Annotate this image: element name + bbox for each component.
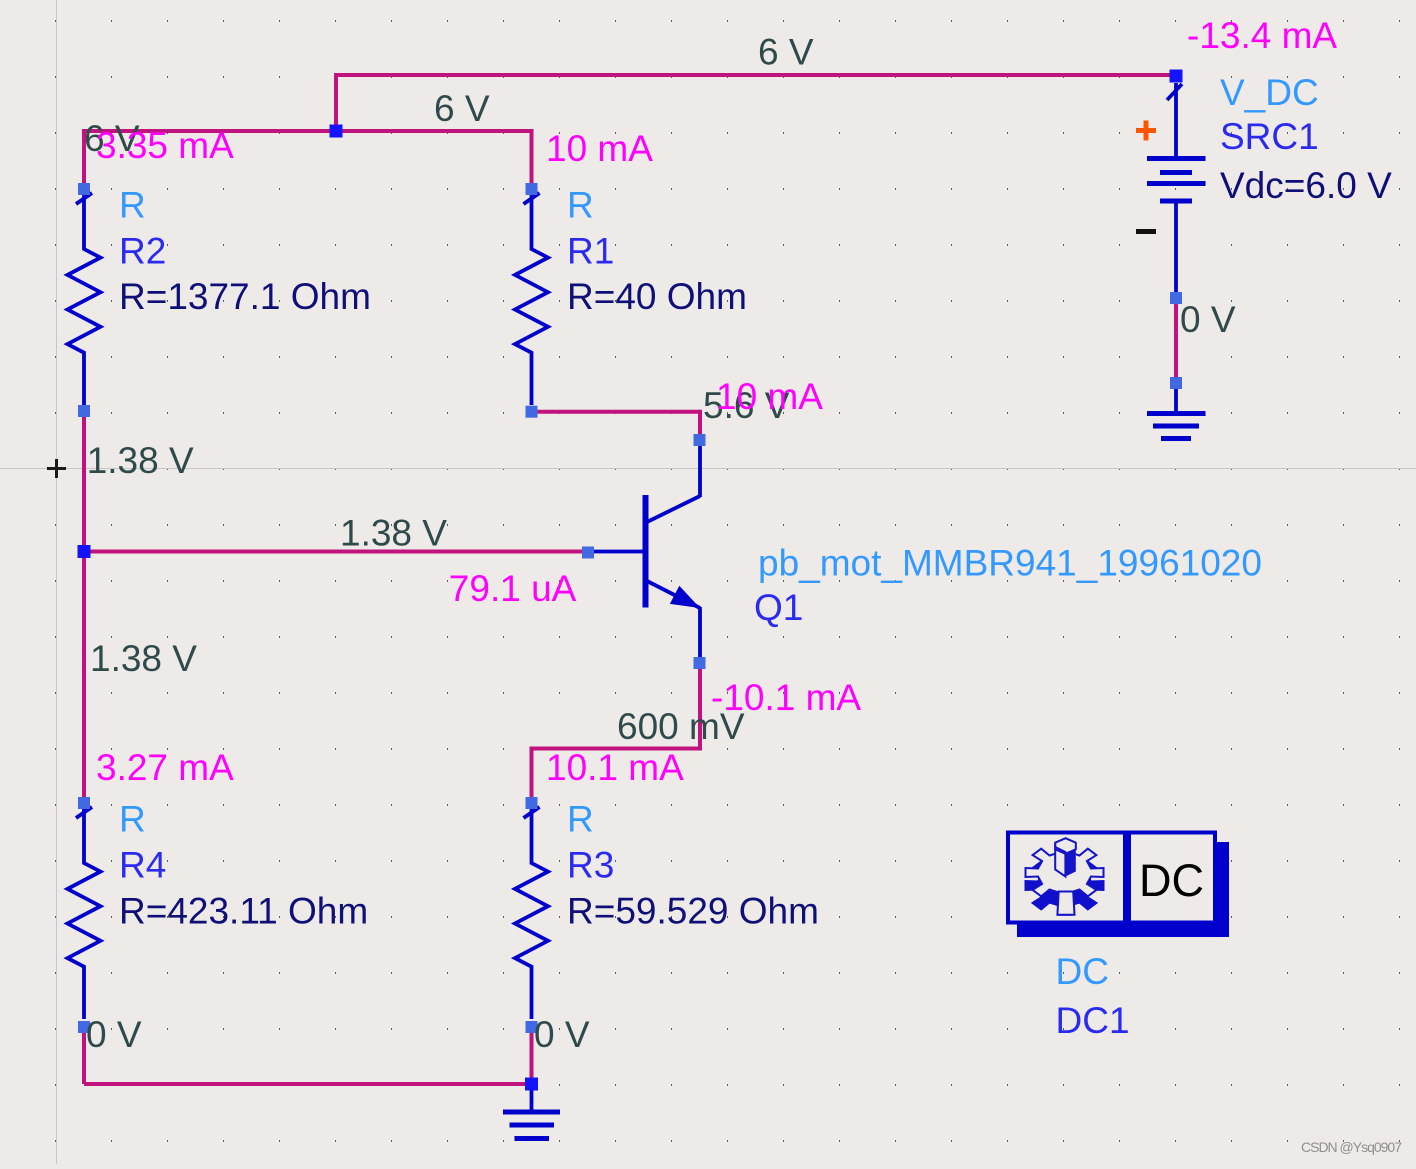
svg-text:0 V: 0 V	[1180, 299, 1236, 340]
pin node R4 top	[78, 797, 90, 809]
wire emitter down	[698, 663, 702, 749]
svg-text:1.38 V: 1.38 V	[340, 513, 447, 554]
pin node emitter	[694, 657, 706, 669]
wire R4 bottom down	[82, 1027, 86, 1084]
base bar	[643, 495, 649, 608]
pin node V_DC minus	[1170, 292, 1182, 304]
svg-text:R: R	[567, 185, 594, 226]
svg-text:R=423.11 Ohm: R=423.11 Ohm	[119, 891, 368, 932]
transistor emitter arrow	[670, 586, 700, 608]
wire vertical x=336	[334, 73, 338, 131]
battery plate short bottom	[1160, 199, 1192, 204]
V_DC labels	[1220, 72, 1392, 206]
svg-text:R2: R2	[119, 231, 166, 272]
resistor R2 labels	[119, 185, 371, 318]
DC block gear icon	[1026, 838, 1104, 915]
svg-text:6 V: 6 V	[758, 32, 814, 73]
top lead	[1174, 83, 1178, 158]
svg-text:0 V: 0 V	[86, 1014, 142, 1055]
grid axis vertical line	[56, 0, 58, 1164]
svg-text:-13.4 mA: -13.4 mA	[1187, 15, 1337, 56]
grid axis horizontal line	[0, 468, 1416, 470]
svg-text:R=1377.1 Ohm: R=1377.1 Ohm	[119, 276, 371, 317]
wire V_DC minus to ground pin	[1174, 298, 1178, 383]
svg-text:R: R	[119, 185, 146, 226]
wire R3 bottom down	[530, 1027, 534, 1084]
wire second rail y=131	[84, 129, 532, 133]
wire emitter horizontal y=748.5	[532, 747, 703, 751]
svg-text:10 mA: 10 mA	[546, 128, 653, 169]
svg-text:R=59.529 Ohm: R=59.529 Ohm	[567, 891, 819, 932]
wire R1 bottom to corner y=411.7	[532, 410, 701, 414]
pin node R3 top	[526, 797, 538, 809]
emitter diagonal	[647, 581, 700, 608]
svg-text:R: R	[567, 799, 594, 840]
resistor R4 labels	[119, 799, 368, 932]
resistor R1 labels	[567, 185, 747, 318]
svg-text:DC: DC	[1139, 855, 1204, 906]
svg-text:79.1 uA: 79.1 uA	[449, 568, 577, 609]
junction node at (531.5,1084)	[525, 1078, 538, 1091]
DC block left cell	[1008, 833, 1125, 923]
base stub	[590, 550, 645, 554]
pin node R1 top	[526, 183, 538, 195]
svg-text:SRC1: SRC1	[1220, 116, 1319, 157]
pin node ground top	[1170, 377, 1182, 389]
svg-text:Vdc=6.0 V: Vdc=6.0 V	[1220, 165, 1392, 206]
DC block shadow	[1017, 925, 1229, 938]
DC block right cell	[1129, 833, 1215, 923]
svg-text:R1: R1	[567, 231, 614, 272]
svg-text:0 V: 0 V	[534, 1014, 590, 1055]
svg-text:10.1 mA: 10.1 mA	[546, 747, 684, 788]
wire base net y=551.5	[84, 550, 588, 554]
pin node R4 bottom	[78, 1021, 90, 1033]
wire down to R3 top	[530, 747, 534, 806]
wire R2 bottom to R4 top	[82, 411, 86, 805]
svg-text:3.27 mA: 3.27 mA	[96, 747, 234, 788]
pin node R2 top	[78, 183, 90, 195]
wire x=531.5 down to R1	[530, 129, 534, 187]
origin cross marker	[47, 459, 66, 478]
svg-text:CSDN @Ysq0907: CSDN @Ysq0907	[1301, 1139, 1402, 1155]
DC block labels	[1056, 951, 1130, 1041]
pin tick	[1167, 84, 1182, 100]
pin node R2 bottom	[78, 405, 90, 417]
wire corner down to collector	[698, 410, 702, 440]
collector vertical	[698, 440, 702, 497]
junction node at (84,551.5)	[78, 545, 91, 558]
wire x=84 down to R2	[82, 129, 86, 187]
svg-text:DC1: DC1	[1056, 1000, 1130, 1041]
emitter vertical	[698, 607, 702, 663]
svg-text:-10.1 mA: -10.1 mA	[711, 677, 861, 718]
battery plate long	[1147, 181, 1206, 186]
collector diagonal	[647, 496, 700, 522]
svg-text:3.35 mA: 3.35 mA	[96, 125, 234, 166]
V_DC minus sign	[1136, 229, 1156, 234]
pin node R3 bottom	[526, 1021, 538, 1033]
battery plate long top	[1147, 156, 1206, 161]
transistor Q1 labels	[754, 543, 1262, 628]
pin node R1 bottom	[526, 406, 538, 418]
resistor R3 labels	[567, 799, 819, 932]
svg-text:1.38 V: 1.38 V	[87, 440, 194, 481]
junction node at (336,131)	[330, 125, 343, 138]
battery plate short	[1160, 170, 1192, 175]
svg-text:Q1: Q1	[754, 587, 803, 628]
svg-text:pb_mot_MMBR941_19961020: pb_mot_MMBR941_19961020	[758, 543, 1262, 584]
junction node at (1176,76)	[1170, 70, 1183, 83]
V_DC plus sign	[1136, 121, 1156, 141]
svg-text:V_DC: V_DC	[1220, 72, 1319, 113]
bottom lead	[1174, 201, 1178, 298]
pin node collector	[694, 434, 706, 446]
wire top rail y=75	[336, 73, 1176, 77]
svg-text:R=40 Ohm: R=40 Ohm	[567, 276, 747, 317]
gear bottom front tooth	[1057, 892, 1074, 915]
svg-text:10 mA: 10 mA	[716, 376, 823, 417]
wire bottom rail y=1084	[84, 1082, 532, 1086]
svg-text:R3: R3	[567, 845, 614, 886]
svg-text:R4: R4	[119, 845, 166, 886]
svg-text:1.38 V: 1.38 V	[90, 638, 197, 679]
svg-text:R: R	[119, 799, 146, 840]
pin node base	[582, 547, 594, 559]
svg-text:DC: DC	[1056, 951, 1109, 992]
gear center post	[1055, 844, 1076, 877]
svg-text:6 V: 6 V	[434, 88, 490, 129]
